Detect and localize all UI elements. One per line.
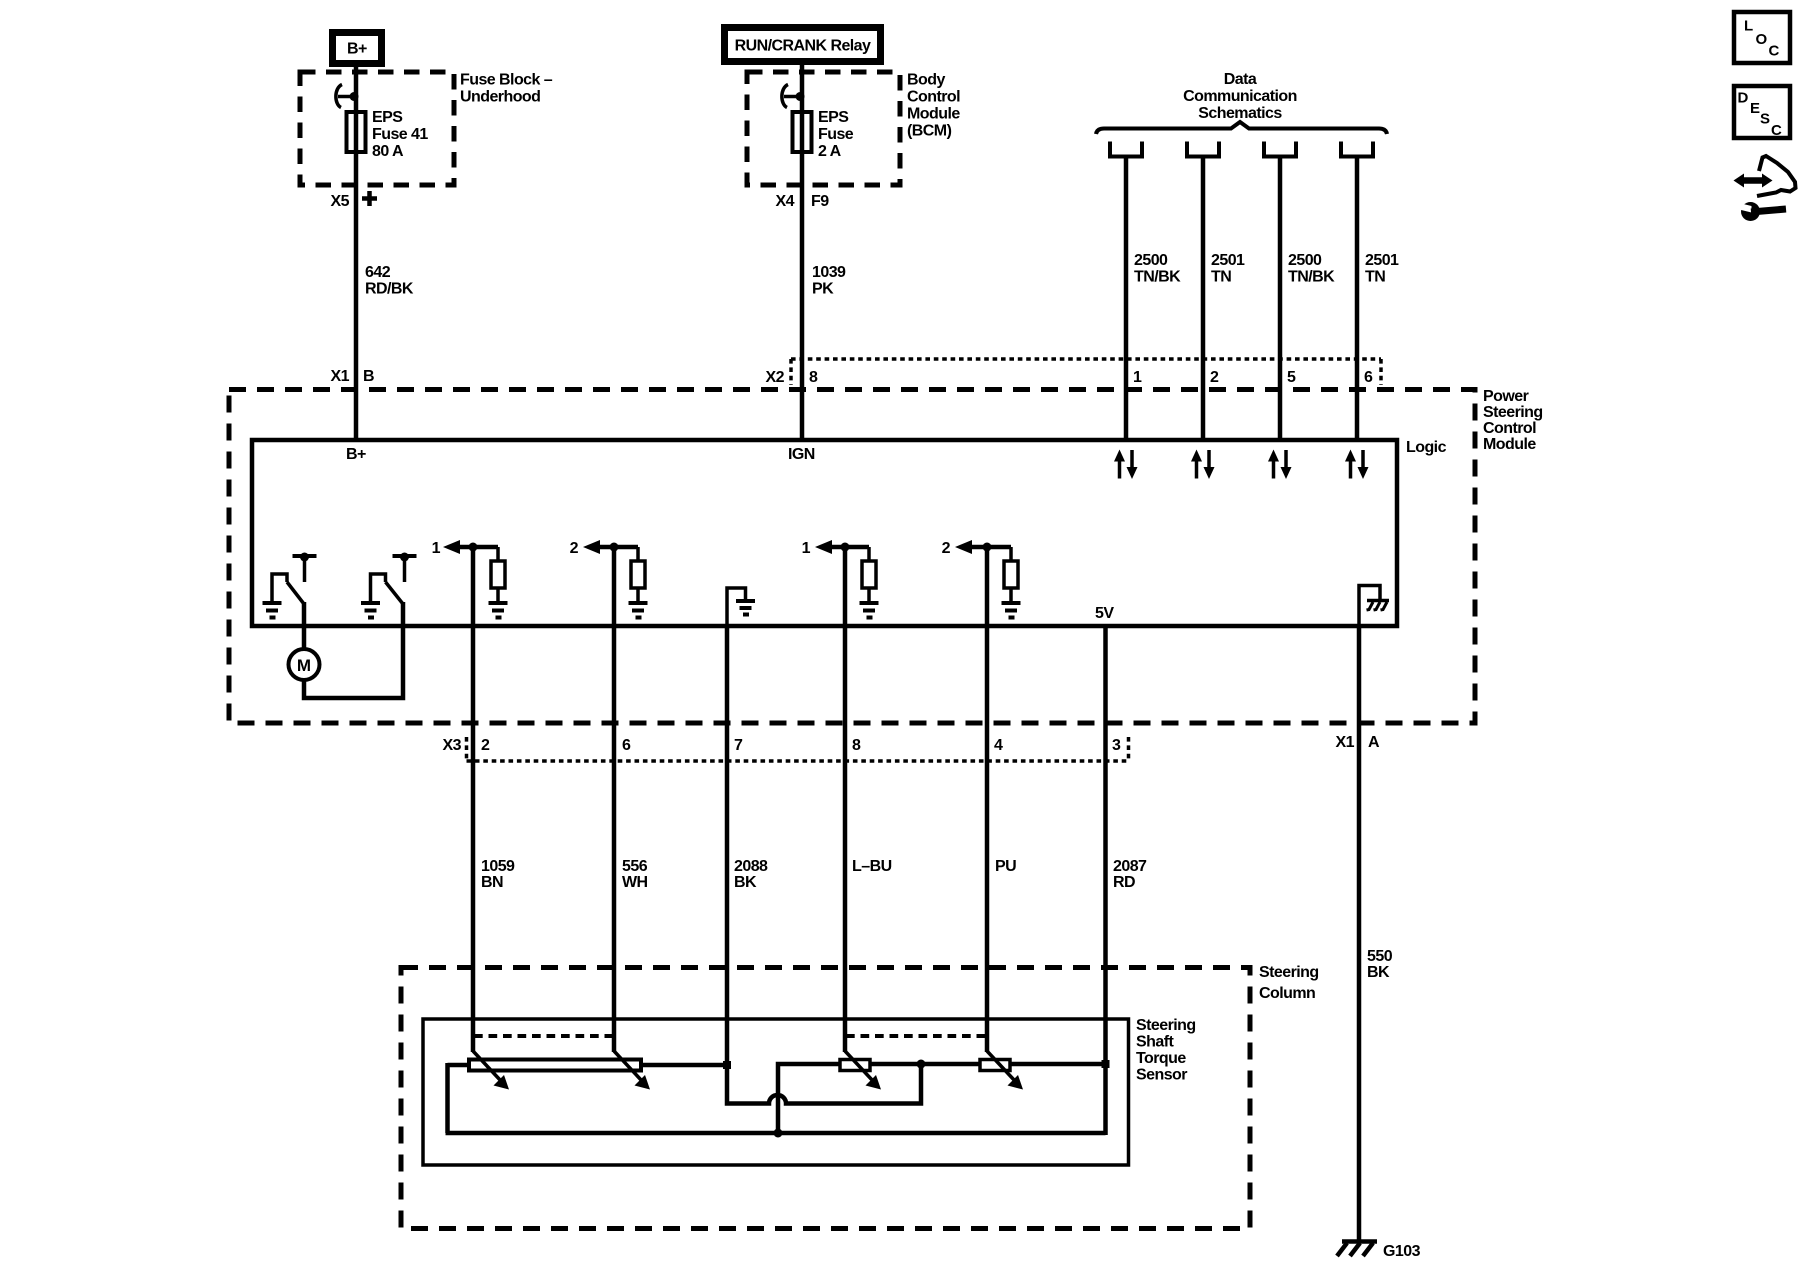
svg-text:C: C	[1771, 122, 1782, 139]
svg-text:1: 1	[432, 540, 441, 557]
svg-text:E: E	[1750, 100, 1760, 117]
svg-text:1: 1	[1133, 369, 1142, 386]
wire 2501 TN to X2-2	[1201, 156, 1206, 442]
track pot4 to 5V	[1010, 1062, 1106, 1067]
arrow into logic (signal 2)	[583, 540, 600, 554]
svg-text:RD: RD	[1113, 874, 1135, 891]
track between pot3 and pot4	[870, 1062, 980, 1067]
svg-text:X1: X1	[1336, 734, 1355, 751]
svg-text:TN/BK: TN/BK	[1288, 269, 1335, 286]
BK drop and crossover with hop	[727, 1064, 921, 1104]
svg-text:Schematics: Schematics	[1198, 105, 1282, 122]
wire IGN feed (1039 PK) from relay to PSCM X2-8	[800, 62, 805, 442]
node junction signal 4	[983, 543, 992, 552]
svg-text:RD/BK: RD/BK	[365, 281, 414, 298]
node junction signal 3	[841, 543, 850, 552]
svg-text:550: 550	[1367, 948, 1393, 965]
svg-text:TN: TN	[1211, 269, 1231, 286]
wire 2501 TN to X2-6	[1355, 156, 1360, 442]
wire PU from junction to sensor wiper 4	[985, 547, 990, 1052]
svg-text:1059: 1059	[481, 858, 515, 875]
left loop vertical	[445, 1063, 450, 1133]
svg-text:BN: BN	[481, 874, 503, 891]
Steering Column dashed box	[401, 968, 1250, 1229]
svg-text:D: D	[1738, 90, 1749, 107]
svg-text:TN: TN	[1365, 269, 1385, 286]
wire 2087 RD 5V from logic to sensor	[1103, 624, 1108, 1135]
svg-text:Logic: Logic	[1406, 439, 1447, 456]
svg-text:Torque: Torque	[1136, 1050, 1186, 1067]
svg-text:2087: 2087	[1113, 858, 1147, 875]
ground under R3	[860, 603, 879, 618]
wire motor loop to switch 2	[304, 602, 403, 698]
service tools icon (arrow and wrench)	[1734, 156, 1796, 221]
wire 2088 BK from logic to sensor	[725, 624, 730, 1065]
svg-text:6: 6	[622, 737, 631, 754]
Fuse Block - Underhood dashed box	[300, 72, 454, 185]
svg-text:X4: X4	[776, 193, 795, 210]
svg-text:Control: Control	[1483, 420, 1536, 437]
node junction BK at track	[723, 1061, 731, 1069]
pot 3 feed riser (through hop)	[778, 1064, 840, 1133]
wire 2500 TN/BK to X2-1	[1124, 156, 1129, 442]
svg-text:1: 1	[802, 540, 811, 557]
mechanical link dashed 2	[846, 1034, 986, 1038]
data in/out arrows pair 2	[1191, 450, 1215, 480]
wiper arrow 2	[614, 1051, 650, 1090]
svg-text:2: 2	[570, 540, 579, 557]
ground under R1	[489, 603, 508, 618]
svg-text:O: O	[1756, 31, 1768, 48]
chassis ground hook inside logic box	[1359, 586, 1380, 625]
svg-text:556: 556	[622, 858, 648, 875]
wire L-BU from junction to sensor wiper 3	[843, 547, 848, 1052]
data in/out arrows pair 3	[1268, 450, 1292, 480]
svg-text:Sensor: Sensor	[1136, 1067, 1187, 1084]
svg-text:F9: F9	[811, 193, 829, 210]
arrow into logic (signal 1)	[443, 540, 460, 554]
svg-text:2500: 2500	[1288, 252, 1322, 269]
svg-text:Communication: Communication	[1183, 88, 1297, 105]
wiper arrow 1	[473, 1051, 509, 1090]
wiper arrow 3	[845, 1051, 881, 1090]
svg-text:G103: G103	[1383, 1243, 1421, 1260]
svg-text:X1: X1	[331, 368, 350, 385]
potentiometer track 1 (long)	[469, 1060, 641, 1071]
svg-text:BK: BK	[1367, 964, 1390, 981]
potentiometer 4 track	[980, 1060, 1010, 1071]
off-page connector 4 (2501 TN)	[1341, 142, 1373, 157]
svg-text:Fuse Block –: Fuse Block –	[460, 72, 553, 89]
ground under switch 1	[263, 603, 282, 618]
svg-text:2: 2	[481, 737, 490, 754]
svg-text:Body: Body	[907, 72, 945, 89]
svg-text:M: M	[297, 656, 311, 675]
fuse EPS Fuse 41 80 A	[347, 112, 366, 152]
motor drive switch 2	[371, 553, 417, 605]
bottom 5V rail	[446, 1131, 1106, 1136]
svg-text:2 A: 2 A	[818, 143, 842, 160]
svg-text:2088: 2088	[734, 858, 768, 875]
svg-text:PU: PU	[995, 858, 1016, 875]
svg-text:IGN: IGN	[788, 446, 815, 463]
svg-text:2501: 2501	[1211, 252, 1245, 269]
pull resistor R3	[867, 547, 871, 561]
svg-text:B+: B+	[347, 41, 367, 58]
off-page connector 3 (2500 TN/BK)	[1264, 142, 1296, 157]
svg-text:642: 642	[365, 264, 391, 281]
svg-text:(BCM): (BCM)	[907, 123, 952, 140]
ground under switch 2	[361, 603, 380, 618]
svg-text:Control: Control	[907, 89, 960, 106]
internal ground hook (sensor return 2088 BK)	[727, 588, 746, 624]
svg-text:2500: 2500	[1134, 252, 1168, 269]
svg-text:Underhood: Underhood	[460, 89, 540, 106]
wire 550 BK ground wire to G103	[1357, 624, 1362, 1240]
svg-text:X2: X2	[766, 369, 785, 386]
data in/out arrows pair 4	[1345, 450, 1369, 480]
node junction mid track 3-4	[917, 1060, 926, 1069]
svg-text:BK: BK	[734, 874, 757, 891]
Power Steering Control Module dashed box	[229, 390, 1475, 724]
svg-text:Shaft: Shaft	[1136, 1034, 1174, 1051]
svg-text:Module: Module	[1483, 436, 1536, 453]
node junction signal 2	[610, 543, 619, 552]
Body Control Module dashed box	[747, 72, 900, 185]
pull resistor R2	[636, 547, 640, 561]
track 1 feed from left loop	[448, 1063, 470, 1068]
ground under R2	[629, 603, 648, 618]
track 1 right extension to BK	[641, 1063, 727, 1068]
pull resistor R4	[1009, 547, 1013, 561]
svg-text:C: C	[1769, 43, 1780, 60]
power symbol B+ box	[333, 33, 382, 64]
svg-text:L–BU: L–BU	[852, 858, 892, 875]
svg-text:X3: X3	[443, 737, 462, 754]
LOC legend box	[1734, 12, 1790, 63]
connector X2 dotted strip	[791, 357, 1381, 361]
svg-text:8: 8	[809, 369, 818, 386]
svg-text:5: 5	[1287, 369, 1296, 386]
svg-text:L: L	[1744, 18, 1753, 35]
off-page connector 2 (2501 TN)	[1187, 142, 1219, 157]
battery feed tap clip symbol	[336, 85, 342, 108]
svg-text:X5: X5	[331, 193, 350, 210]
svg-text:TN/BK: TN/BK	[1134, 269, 1181, 286]
svg-text:B: B	[363, 368, 374, 385]
junction node on IGN wire at clip	[796, 92, 805, 101]
node junction on rail	[774, 1129, 783, 1138]
brace over data communication connectors	[1096, 122, 1387, 134]
svg-text:Steering: Steering	[1136, 1017, 1196, 1034]
DESC legend box	[1734, 86, 1790, 139]
connector X3 strip	[467, 759, 1129, 763]
svg-text:1039: 1039	[812, 264, 846, 281]
node junction RD at track	[1102, 1060, 1110, 1068]
svg-text:5V: 5V	[1095, 605, 1114, 622]
wire 2500 TN/BK to X2-5	[1278, 156, 1283, 442]
pull resistor R1	[496, 547, 500, 561]
Steering Shaft Torque Sensor box	[423, 1019, 1129, 1165]
wiper arrow 4	[987, 1051, 1023, 1090]
ground at hook	[736, 601, 755, 615]
svg-text:Steering: Steering	[1483, 404, 1543, 421]
arrow into logic (signal 4)	[955, 540, 972, 554]
svg-text:2501: 2501	[1365, 252, 1399, 269]
svg-text:WH: WH	[622, 874, 648, 891]
svg-text:S: S	[1760, 111, 1770, 128]
svg-text:80 A: 80 A	[372, 143, 404, 160]
svg-text:B+: B+	[346, 446, 366, 463]
wire switch 1 to motor	[302, 602, 307, 650]
svg-text:PK: PK	[812, 281, 834, 298]
Logic box	[252, 440, 1397, 626]
svg-text:3: 3	[1112, 737, 1121, 754]
svg-text:4: 4	[994, 737, 1003, 754]
svg-text:Steering: Steering	[1259, 964, 1319, 981]
fuse EPS Fuse 2 A	[793, 112, 812, 152]
svg-text:Data: Data	[1224, 71, 1257, 88]
wire 556 WH from junction to sensor wiper 2	[612, 547, 617, 1052]
ground G103	[1337, 1242, 1377, 1257]
mechanical link dashed 1	[474, 1034, 613, 1038]
arrow into logic (signal 3)	[815, 540, 832, 554]
motor drive switch 1	[272, 553, 317, 605]
wire B+ feed (642 RD/BK) from B+ box to PSCM X1-B	[354, 64, 359, 442]
svg-text:EPS: EPS	[818, 109, 849, 126]
ground under R4	[1002, 603, 1021, 618]
svg-text:A: A	[1368, 734, 1380, 751]
chassis ground symbol	[1367, 601, 1390, 611]
svg-text:7: 7	[734, 737, 743, 754]
svg-text:RUN/CRANK Relay: RUN/CRANK Relay	[735, 38, 871, 55]
motor M	[289, 649, 320, 680]
relay feed tap clip symbol	[782, 85, 788, 108]
off-page connector 1 (2500 TN/BK)	[1110, 142, 1142, 157]
svg-text:8: 8	[852, 737, 861, 754]
svg-text:2: 2	[942, 540, 951, 557]
svg-text:2: 2	[1210, 369, 1219, 386]
svg-text:Module: Module	[907, 106, 960, 123]
RUN/CRANK Relay box	[725, 28, 881, 62]
svg-text:Fuse: Fuse	[818, 126, 854, 143]
svg-text:Power: Power	[1483, 388, 1529, 405]
node junction signal 1	[469, 543, 478, 552]
junction node on B+ wire at clip	[350, 92, 359, 101]
svg-text:EPS: EPS	[372, 109, 403, 126]
data in/out arrows pair 1	[1114, 450, 1138, 480]
svg-text:Column: Column	[1259, 985, 1315, 1002]
svg-text:6: 6	[1364, 369, 1373, 386]
potentiometer 3 track	[840, 1060, 870, 1071]
svg-text:Fuse 41: Fuse 41	[372, 126, 428, 143]
wire 1059 BN from junction to sensor wiper 1	[471, 547, 476, 1052]
